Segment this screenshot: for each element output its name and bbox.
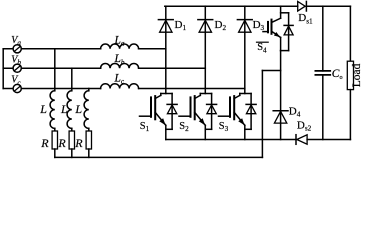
load resistor (box) [347, 61, 353, 89]
svg-text:L: L [74, 102, 82, 116]
wire S2 emitter drop to negative rail [204, 129, 206, 139]
wire C0 top lead [322, 6, 324, 71]
label S4 overline [257, 41, 269, 43]
svg-text:S4: S4 [257, 42, 267, 54]
diode D3 [237, 20, 252, 33]
diode D4 [273, 111, 288, 123]
wire phase A (inductor to leg 1) [139, 48, 166, 50]
svg-text:Ds1: Ds1 [298, 12, 313, 25]
AC source Va (circle with slash) [13, 45, 21, 53]
wire bridge leg 3 (rail to switch unit) [244, 6, 246, 93]
svg-text:S1: S1 [140, 121, 150, 133]
wire negative rail (right part) [307, 139, 350, 141]
wire coil-to-resistor branch 1 [54, 128, 56, 131]
resistor R2 (box) [69, 131, 74, 149]
svg-text:Lc: Lc [114, 73, 125, 86]
wire phase C (inductor to leg 3) [139, 88, 245, 90]
diode Ds1 (series, top rail) [298, 1, 307, 11]
wire tap branch 1 [54, 49, 56, 91]
wire bridge leg 1 (rail to switch unit) [165, 6, 167, 93]
IGBT S4 with antiparallel diode [263, 6, 293, 50]
svg-text:La: La [114, 34, 125, 47]
wire phase A segment (bus to series inductor) [3, 48, 100, 50]
diode D2 [198, 20, 213, 33]
resistor R1 (box) [52, 131, 57, 149]
wire C0 bottom lead [322, 75, 324, 140]
inductor Lb (series, phase B) [101, 63, 139, 68]
wire top positive rail (left part) [165, 5, 298, 7]
wire negative rail (left part) [166, 139, 296, 141]
svg-text:Va: Va [11, 35, 21, 47]
wire tap branch 2 [71, 68, 73, 91]
svg-text:L: L [60, 102, 68, 116]
wire S4 emitter down through D4 node to negative rail [280, 51, 282, 140]
wire jog vertical (S4 emitter node to LR rail) [261, 71, 263, 158]
wire resistor-to-rail branch 1 [54, 149, 56, 157]
IGBT S3 with antiparallel diode [219, 94, 257, 130]
svg-text:Ds2: Ds2 [297, 119, 312, 132]
inductor L (branch 3) [84, 91, 89, 129]
svg-text:D3: D3 [253, 19, 265, 32]
inductor L (branch 2) [67, 91, 72, 129]
diode Ds2 (series, negative rail, pointing left) [296, 135, 307, 145]
wire coil-to-resistor branch 2 [71, 128, 73, 131]
capacitor C0 [315, 71, 330, 75]
svg-text:R: R [40, 136, 49, 150]
svg-text:Load: Load [351, 63, 363, 87]
wire jog horizontal [262, 70, 280, 72]
svg-text:Vb: Vb [11, 54, 21, 66]
wire tap branch 3 [88, 89, 90, 91]
svg-text:L: L [39, 102, 47, 116]
svg-text:R: R [74, 136, 83, 150]
inductor Lc (series, phase C) [101, 84, 139, 89]
svg-text:Vc: Vc [11, 75, 21, 87]
wire right bus down to load [349, 6, 351, 61]
svg-text:S3: S3 [219, 121, 229, 133]
wire S3 emitter drop to negative rail [244, 129, 246, 139]
AC source Vc (circle with slash) [13, 84, 21, 92]
IGBT S2 with antiparallel diode [179, 94, 217, 130]
wire phase B segment (bus to series inductor) [3, 67, 100, 69]
wire LR star rail (bottom) [55, 156, 263, 158]
wire phase B (inductor to leg 2) [139, 67, 206, 69]
inductor La (series, phase A) [101, 44, 139, 49]
svg-text:Lb: Lb [114, 53, 125, 66]
svg-text:D1: D1 [175, 19, 187, 32]
diode D1 [158, 20, 173, 33]
svg-text:Co: Co [332, 68, 343, 81]
wire bridge leg 2 (rail to switch unit) [204, 6, 206, 93]
wire phase C segment (bus to series inductor) [3, 88, 100, 90]
svg-text:R: R [57, 136, 66, 150]
wire resistor-to-rail branch 2 [71, 149, 73, 157]
resistor R3 (box) [86, 131, 91, 149]
svg-text:D4: D4 [289, 105, 301, 118]
wire S1 emitter drop to negative rail [165, 129, 167, 139]
wire load bottom to negative rail [349, 90, 351, 140]
wire coil-to-resistor branch 3 [88, 128, 90, 131]
AC source Vb (circle with slash) [13, 64, 21, 72]
inductor L (branch 1) [50, 91, 55, 129]
svg-text:S2: S2 [179, 121, 189, 133]
svg-text:D2: D2 [215, 19, 227, 32]
wire resistor-to-rail branch 3 [88, 149, 90, 157]
IGBT S1 with antiparallel diode [140, 94, 178, 130]
wire top positive rail (right part) [306, 5, 350, 7]
wire left vertical bus [2, 49, 4, 89]
